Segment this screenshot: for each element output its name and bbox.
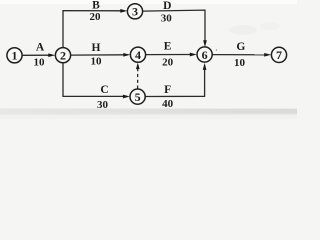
faint scan smudges (top right) (229, 25, 257, 35)
svg-text:E: E (164, 41, 172, 53)
wire H (2→4) (71, 53, 131, 57)
svg-text:5: 5 (135, 90, 141, 104)
wire G (6→7) (212, 53, 271, 57)
svg-text:10: 10 (234, 57, 246, 69)
dummy arrow (5→4, dashed) (136, 63, 140, 89)
node 7 (271, 47, 286, 62)
wire F (5→6) (145, 63, 206, 97)
svg-text:7: 7 (276, 48, 282, 62)
svg-text:B: B (92, 0, 100, 12)
svg-text:1: 1 (12, 49, 18, 63)
page background (0, 0, 297, 119)
node 6 (197, 47, 212, 62)
svg-text:30: 30 (161, 13, 173, 25)
wire E (4→6) (146, 53, 197, 57)
svg-text:10: 10 (91, 56, 103, 68)
wire A (1→2) (22, 53, 55, 57)
svg-text:20: 20 (90, 11, 102, 23)
svg-text:H: H (92, 42, 101, 54)
node 1 (7, 48, 22, 63)
node 5 (130, 89, 145, 104)
node 4 (130, 47, 145, 62)
wire B (2→3) (63, 9, 127, 48)
svg-text:C: C (100, 84, 108, 96)
speck near node 6 (216, 49, 218, 51)
svg-text:40: 40 (162, 98, 174, 110)
node 3 (127, 4, 142, 19)
svg-text:G: G (236, 41, 245, 53)
svg-text:6: 6 (202, 48, 208, 62)
svg-text:D: D (163, 0, 171, 12)
svg-text:30: 30 (97, 99, 109, 111)
svg-text:2: 2 (60, 49, 66, 63)
svg-text:10: 10 (34, 57, 46, 69)
svg-text:F: F (164, 84, 171, 96)
wire D (3→6) (143, 10, 207, 47)
wire C (2→5) (63, 63, 130, 98)
node 2 (55, 48, 70, 63)
svg-text:3: 3 (132, 5, 138, 19)
svg-text:4: 4 (135, 48, 141, 62)
svg-text:20: 20 (162, 56, 174, 68)
svg-text:A: A (36, 42, 45, 54)
